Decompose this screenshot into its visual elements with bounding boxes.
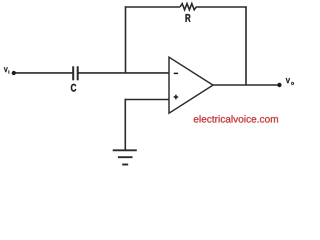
op-amp non-inverting pin plus sign (174, 95, 179, 100)
node Vi label (4, 67, 9, 73)
node Vo terminal dot (277, 83, 281, 87)
label R (186, 14, 191, 22)
op-amp inverting pin minus sign (174, 72, 178, 74)
wire Vi to capacitor C (16, 72, 74, 74)
label C (71, 84, 76, 92)
wire non-inverting input down to ground (124, 99, 126, 150)
wire feedback right vertical (245, 6, 247, 85)
watermark electricalvoice.com (194, 115, 278, 122)
wire capacitor to op-amp inverting input (78, 72, 170, 74)
op-amp U1 (169, 57, 213, 113)
node Vo label (286, 78, 294, 85)
ground (113, 150, 137, 164)
wire op-amp non-inverting input horizontal (125, 99, 170, 101)
wire feedback top right segment (198, 6, 247, 8)
wire op-amp output to Vo (213, 84, 279, 86)
node Vi terminal dot (12, 71, 16, 75)
wire feedback top left segment (125, 6, 180, 8)
wire feedback left vertical (125, 6, 127, 73)
capacitor C (73, 66, 78, 80)
resistor R (180, 4, 198, 10)
